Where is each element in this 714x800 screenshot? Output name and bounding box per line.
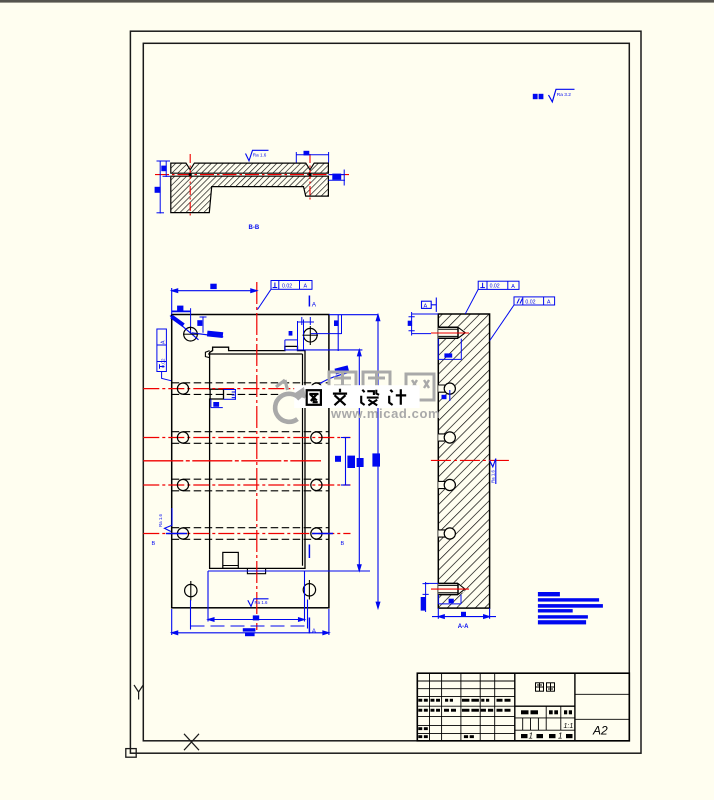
A-A top-left counterbore dimension [409,312,439,336]
svg-text:B: B [341,541,345,547]
watermark text WEN (drawn) [333,389,347,405]
surface finish Ra1.6 left edge (rotated) [165,508,173,532]
watermark gray character 1 [329,372,356,394]
GD&T frame parallelism (A-A right) [490,297,555,341]
pocket inner rim top line [208,353,302,355]
title block outer border [417,673,629,741]
svg-text:A: A [312,302,317,309]
svg-text:A: A [511,284,515,290]
watermark text TU (drawn) [307,390,321,405]
watermark swoosh logo [275,380,300,422]
section B cut marks [166,533,187,535]
title block grid left part [417,673,515,741]
GD&T frame perpendicularity (top) [258,281,313,310]
top-right hole dimension cluster [285,315,342,351]
hidden lines for hole rows [172,383,329,540]
svg-text:1:1: 1:1 [564,723,574,730]
svg-text:A: A [160,340,166,344]
A-A bottom width dimension [432,608,496,619]
A-A bottom counterbore hole [438,583,465,594]
watermark white box [294,385,419,408]
datum A flag [422,298,437,312]
GD&T frame perpendicularity (left, rotated) [157,329,171,381]
A-A side holes at rows [438,385,446,392]
pocket left edge notch [210,389,224,399]
svg-text:Ra 1.6: Ra 1.6 [253,153,267,158]
watermark text SHE (drawn) [361,390,379,406]
pocket corner ear top-left [205,351,209,358]
A-A row1 hole callout [449,390,451,401]
section B-B red hole centerline right [309,154,311,202]
plot origin square marker [126,749,136,758]
section B-B red hole centerline left [189,154,191,218]
corner guide holes (4x) [184,327,317,596]
watermark text JI (drawn) [389,389,406,405]
title block grid right part [575,694,629,719]
technical requirements text bars [538,592,603,624]
title block grid middle part [515,673,575,741]
red middle horizontal centerline [143,460,321,462]
svg-text:0.02: 0.02 [525,299,535,305]
svg-text:A: A [304,284,308,290]
leader to row1 right hole [320,373,348,384]
X axis mark [184,734,199,750]
surface finish Ra1.6 above B-B [246,150,269,161]
surface finish Ra1.6 below plate [248,599,269,607]
svg-text:Ra 1.6: Ra 1.6 [491,470,496,483]
svg-text:B-B: B-B [249,225,260,231]
svg-text:Ra 3.2: Ra 3.2 [557,92,571,98]
pocket inner rim right line [302,354,304,566]
A-A top counterbore depth box [438,339,461,360]
A-A bottom counterbore depth box [438,595,461,604]
svg-text:Ra 1.6: Ra 1.6 [158,514,163,527]
watermark gray character 2 [363,372,390,394]
top width dimension [172,288,257,315]
GD&T frame perpendicularity (A-A top) [465,281,519,314]
svg-text:A: A [424,303,428,309]
row holes (8x) [177,383,322,539]
A-A middle red centerline [431,459,509,461]
section cut line A marks [308,296,310,634]
B-B top right width dimension [296,152,328,163]
outer drawing frame [130,31,641,753]
pocket bottom step [247,568,265,573]
svg-text:A2: A2 [592,724,608,738]
B-B right step dimension [328,170,345,186]
watermark gray character 3 (net) [406,374,434,400]
stage mark row labels [521,710,572,714]
svg-text:1: 1 [558,732,562,741]
A-A top hole red centerline [431,332,469,334]
B-B left thickness dimension [163,161,171,178]
section A-A body (hatched) [438,314,489,608]
svg-text:A-A: A-A [458,624,469,630]
right side dimensions of main view [208,315,380,609]
svg-text:Ra 1.6: Ra 1.6 [255,600,268,605]
small dim above top-left hole [172,308,207,333]
inner drawing frame [143,43,629,741]
dimension text blobs right side [347,456,355,468]
Y axis mark [134,685,143,700]
title block tiny labels [418,699,510,738]
general surface finish Ra3.2 symbol [549,89,575,102]
B-B left overall height dimension [157,161,165,214]
part name (xing qiang) [536,683,555,691]
svg-text:B: B [152,541,156,547]
svg-text:0.02: 0.02 [160,358,166,368]
red row centerlines [143,389,350,534]
svg-text:A: A [547,300,551,306]
section B-B red horizontal centerline [155,174,350,176]
pocket bottom boss [223,552,239,568]
A-A right surface finish Ra1.6 (rotated) [490,459,496,485]
notch dimension cluster at row1 [211,390,236,408]
corner hole tick marks [191,326,310,601]
svg-text:0.02: 0.02 [490,284,500,290]
svg-text:1: 1 [529,732,533,741]
junction dot right [308,173,311,176]
svg-text:0.02: 0.02 [282,283,292,289]
bottom dimensions [172,571,329,635]
red vertical centerline [256,282,258,630]
A-A bottom hole red centerline [431,588,469,590]
svg-text:A: A [312,628,317,635]
general surface note (qi yu) [533,94,538,99]
counterbore callout leader (top-left) [170,316,199,340]
top hole cross ticks [183,327,318,336]
junction dot left [189,173,192,176]
A-A top counterbore hole [438,327,465,338]
pocket cavity outline (outer rim) [210,346,305,568]
A-A bottom counterbore dimension [423,582,439,612]
section B-B lower plate (hatched) [171,176,329,212]
svg-text:www.micad.com: www.micad.com [330,406,440,421]
main plate outline [172,315,329,608]
top dark browser bar [0,0,714,3]
section B-B upper plate (hatched) [171,163,329,173]
sheet count row [521,734,573,738]
